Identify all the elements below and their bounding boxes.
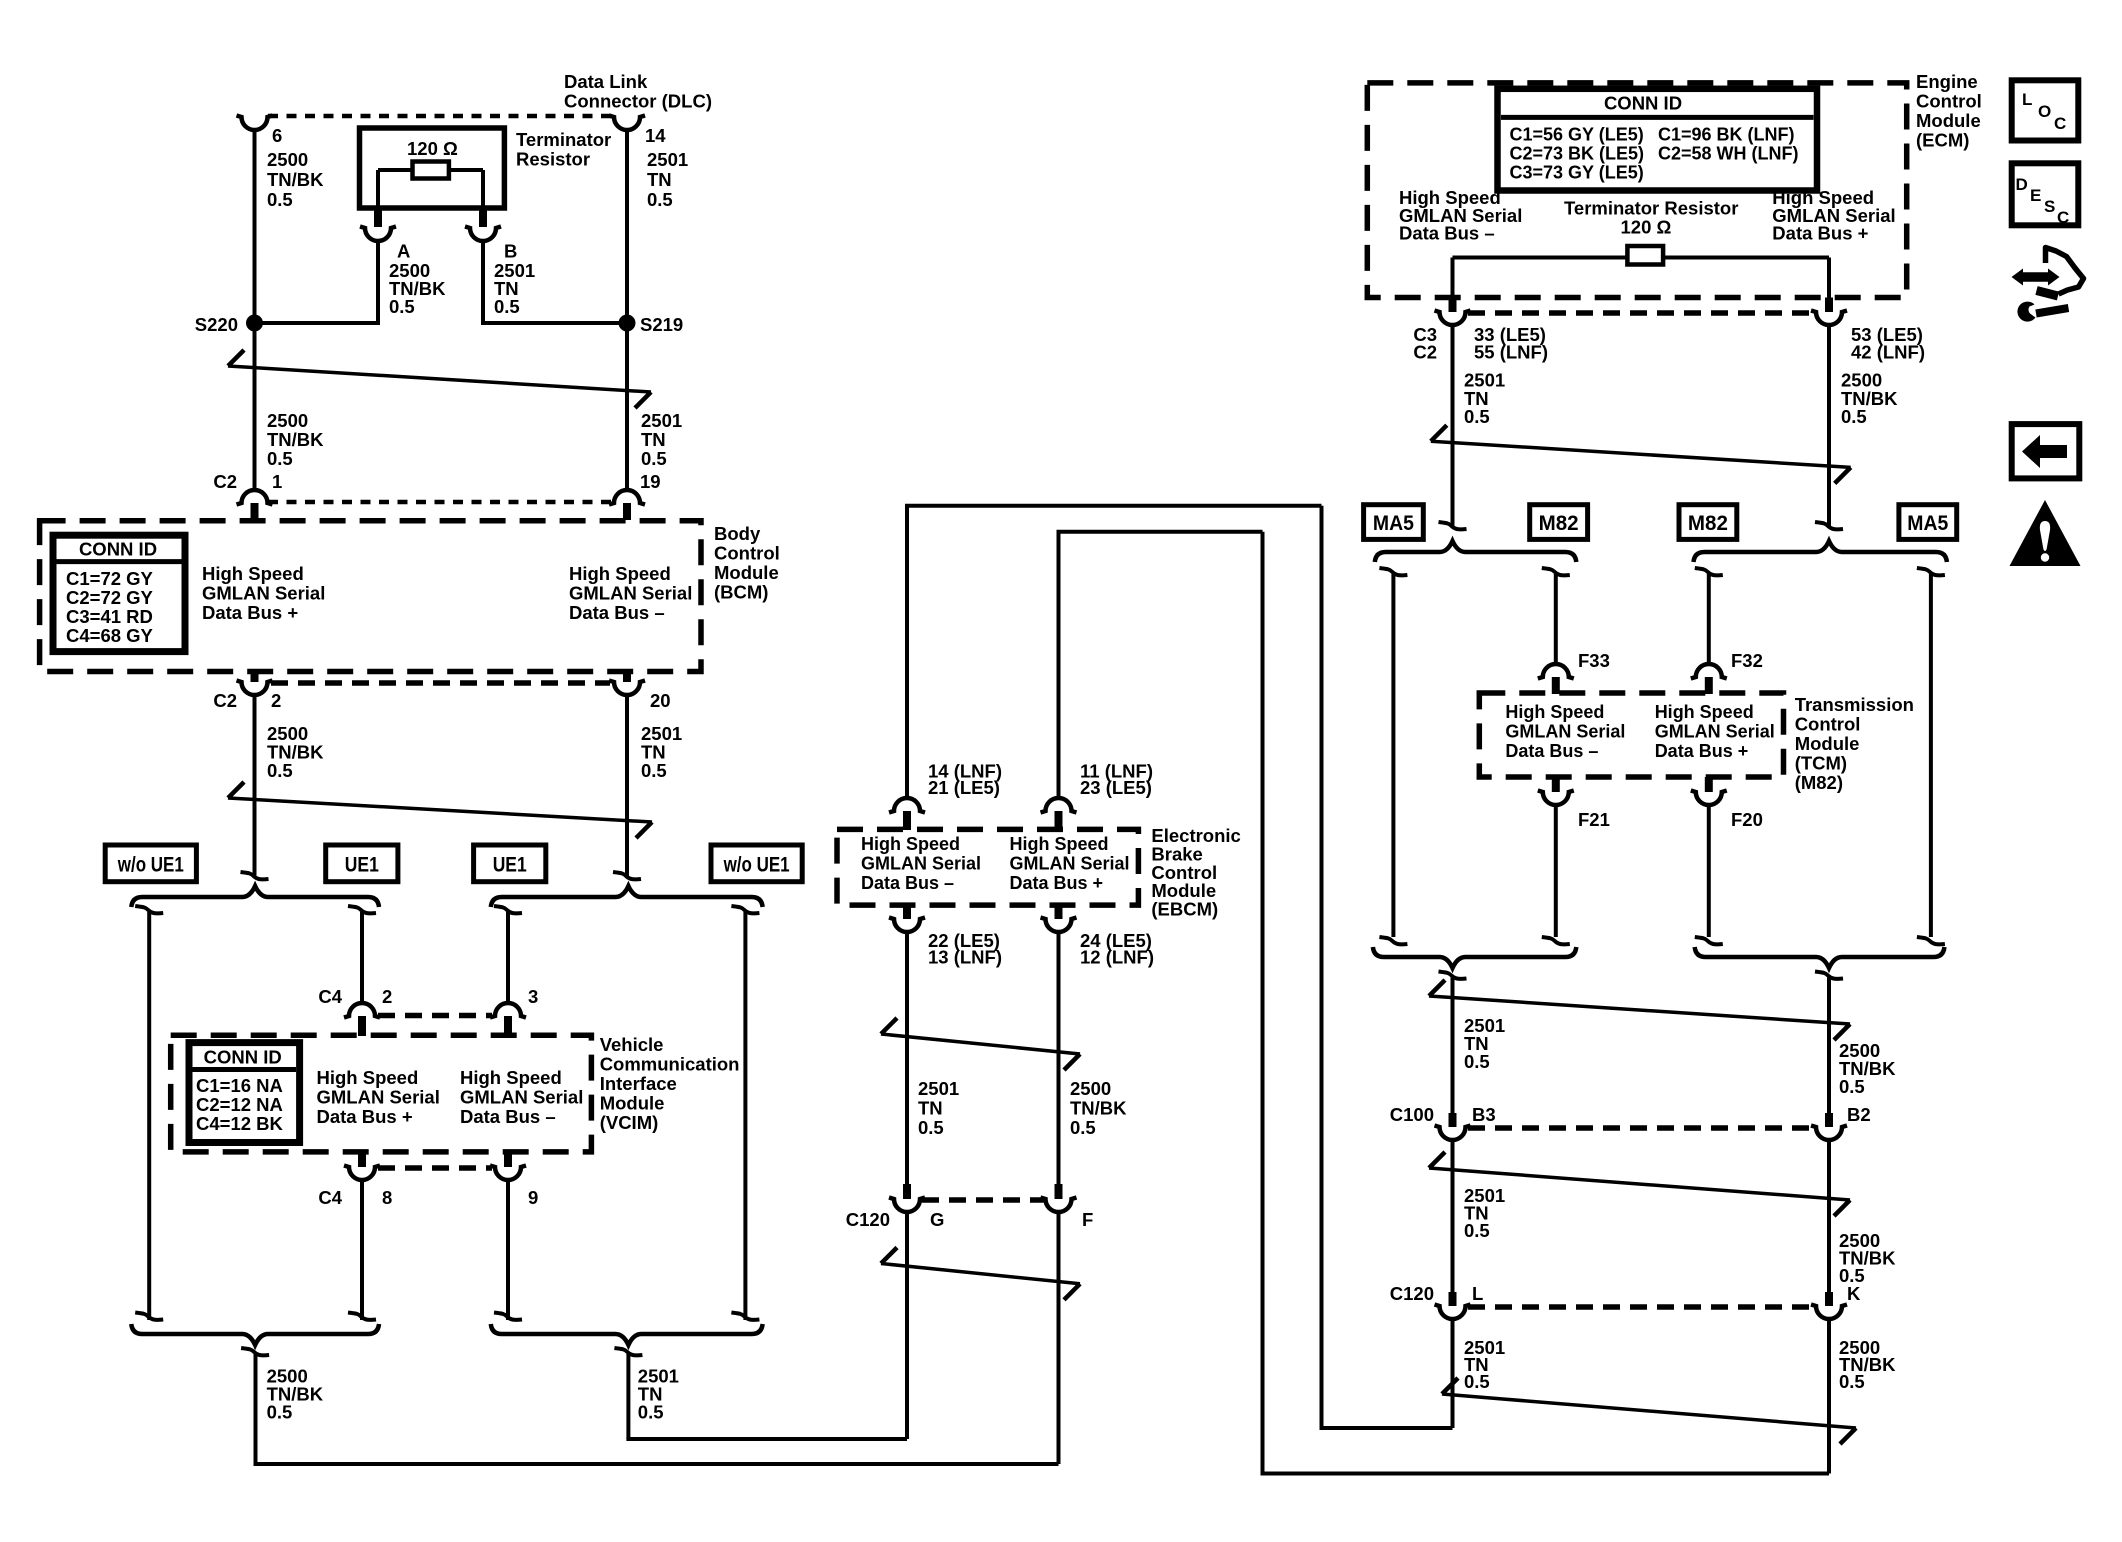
svg-text:0.5: 0.5 (267, 1402, 293, 1423)
svg-text:Transmission: Transmission (1795, 694, 1914, 715)
wire 2500 TN/BK to EBCM F (254, 1354, 258, 1464)
svg-text:F20: F20 (1731, 809, 1763, 830)
terminal stub BCM pin 2 (251, 672, 259, 683)
wire break symbol (1429, 1168, 1850, 1200)
icon LOC box (2012, 80, 2079, 140)
wire break symbol (228, 798, 652, 822)
svg-text:GMLAN Serial: GMLAN Serial (460, 1087, 583, 1108)
connector pin B (cup) (465, 227, 501, 242)
wire 2500 TN/BK C100 to C120 (1827, 1139, 1831, 1292)
wire break symbol (881, 1034, 1080, 1054)
BCM CONN ID table (53, 535, 185, 651)
wire F20 down (1707, 804, 1711, 937)
wire hook (731, 906, 759, 913)
svg-text:(ECM): (ECM) (1916, 130, 1969, 151)
resistor R-DLC element wiring (378, 168, 483, 172)
wire 2501 TN pin14 to S219 (625, 129, 629, 325)
svg-text:GMLAN Serial: GMLAN Serial (1655, 722, 1775, 742)
svg-text:Data Bus –: Data Bus – (569, 602, 665, 623)
svg-text:High Speed: High Speed (1505, 702, 1604, 722)
connector pin F21 (cup) (1538, 791, 1574, 806)
connector pin C4-2 (cap) (344, 1003, 380, 1018)
terminal stub C120-K (1825, 1292, 1833, 1306)
svg-text:High Speed: High Speed (460, 1067, 562, 1088)
wire EBCM bus+ loop top (1057, 532, 1061, 797)
connector pin C120-F (cup) (1041, 1198, 1077, 1213)
svg-text:C: C (2054, 114, 2066, 133)
svg-text:High Speed: High Speed (317, 1067, 419, 1088)
svg-text:CONN ID: CONN ID (1604, 93, 1682, 114)
terminal stub ECM bus+ (1825, 298, 1833, 313)
svg-text:GMLAN Serial: GMLAN Serial (317, 1087, 440, 1108)
svg-text:B2: B2 (1847, 1104, 1871, 1125)
wire 2501 TN pin B to S219 (481, 240, 485, 325)
svg-text:0.5: 0.5 (1839, 1371, 1865, 1392)
terminal stub C120-L (1449, 1292, 1457, 1306)
wire hook (614, 1348, 642, 1355)
svg-text:C2: C2 (213, 690, 237, 711)
connector C3/C2 dashed line (1468, 310, 1814, 316)
wire hook (1542, 937, 1570, 944)
svg-text:Vehicle: Vehicle (600, 1034, 664, 1055)
svg-text:TN: TN (641, 429, 666, 450)
wire 2501 TN to C100-B3 (1451, 978, 1455, 1114)
connector pin ECM bus+ (cup) (1811, 311, 1847, 326)
svg-text:GMLAN Serial: GMLAN Serial (569, 583, 692, 604)
svg-text:(BCM): (BCM) (714, 582, 768, 603)
svg-text:2: 2 (271, 690, 281, 711)
svg-text:2500: 2500 (267, 149, 308, 170)
svg-text:C100: C100 (1390, 1104, 1434, 1125)
wire hook (1815, 522, 1843, 529)
svg-text:120 Ω: 120 Ω (1621, 217, 1672, 238)
svg-text:0.5: 0.5 (1839, 1076, 1865, 1097)
svg-text:Interface: Interface (600, 1073, 677, 1094)
wire hook (731, 1313, 759, 1320)
svg-text:2: 2 (382, 986, 392, 1007)
terminal stub BCM pin 20 (623, 672, 631, 683)
svg-text:E: E (2030, 186, 2041, 205)
terminal stub EBCM bus+ (1055, 811, 1063, 830)
svg-text:C1=72 GY: C1=72 GY (66, 568, 154, 589)
svg-text:C: C (2057, 208, 2069, 227)
connector C4 dashed line lower (378, 1165, 492, 1171)
wire w/o UE1 left branch (147, 912, 151, 1320)
svg-text:D: D (2016, 175, 2028, 194)
connector pin C120-G (cup) (889, 1198, 925, 1213)
wire hook (1815, 972, 1843, 979)
connector pin EBCM bus- (cap) (889, 798, 925, 813)
svg-text:Data Bus +: Data Bus + (1772, 223, 1868, 244)
wire 2501 TN EBCM-22 down (905, 931, 909, 1184)
svg-text:2500: 2500 (1070, 1078, 1111, 1099)
svg-text:21 (LE5): 21 (LE5) (928, 777, 1000, 798)
terminal stub F21 (1552, 777, 1560, 792)
wire hook (348, 906, 376, 913)
terminal stub C100-B3 (1449, 1113, 1457, 1127)
terminal stub C2-19 (623, 503, 631, 520)
wire end hook (241, 872, 269, 879)
svg-text:Data Bus +: Data Bus + (317, 1106, 413, 1127)
svg-text:M82: M82 (1688, 512, 1728, 535)
wire 2501 TN to EBCM G (626, 1354, 630, 1439)
terminal stub pin B (479, 206, 487, 227)
svg-text:2501: 2501 (647, 149, 688, 170)
icon warning triangle (2010, 500, 2081, 566)
svg-text:Data Bus +: Data Bus + (1010, 873, 1104, 893)
terminal stub EBCM pin 24 (1055, 905, 1063, 919)
svg-text:0.5: 0.5 (641, 448, 667, 469)
svg-text:Data Bus +: Data Bus + (1655, 741, 1749, 761)
branch brace left (TCM) (1375, 541, 1577, 562)
svg-text:Data Bus –: Data Bus – (861, 873, 954, 893)
wire 2500 TN/BK pin A to S220 (376, 240, 380, 325)
wire 2501 TN C100 to C120 (1451, 1139, 1455, 1292)
option box UE1 (right) (474, 845, 546, 882)
connector C4 dashed line (378, 1013, 492, 1019)
terminal stub F20 (1705, 777, 1713, 792)
svg-text:C2: C2 (213, 471, 237, 492)
gather brace left (131, 1324, 379, 1345)
svg-text:w/o UE1: w/o UE1 (723, 853, 790, 876)
connector pin C100-B2 (cup) (1811, 1126, 1847, 1141)
svg-text:0.5: 0.5 (1070, 1117, 1096, 1138)
svg-text:CONN ID: CONN ID (204, 1047, 282, 1068)
wire hook (1542, 568, 1570, 575)
terminal stub VCIM pin 8 (358, 1152, 366, 1167)
terminal stub VCIM pin 3 (504, 1016, 512, 1036)
terminal stub C2-1 (251, 503, 259, 520)
svg-text:K: K (1847, 1283, 1861, 1304)
option box UE1 (326, 845, 398, 882)
svg-text:S220: S220 (195, 314, 238, 335)
connector pin C2-1 (cap) (237, 490, 273, 504)
resistor R-ECM 120 ohm element (1627, 246, 1663, 265)
svg-text:Connector (DLC): Connector (DLC) (564, 91, 712, 112)
gather brace right (TCM) (1695, 947, 1945, 968)
terminator resistor box (360, 128, 505, 208)
branch brace right (491, 886, 763, 907)
svg-text:Module: Module (600, 1093, 665, 1114)
wire break symbol (1442, 1394, 1856, 1428)
connector pin C2-19 (cap) (609, 490, 645, 505)
wire 2500 TN/BK to C100-B2 (1827, 978, 1831, 1114)
wire hook (1917, 937, 1945, 944)
connector pin C120-L (cup) (1435, 1305, 1471, 1320)
wire 2500 TN/BK EBCM-24 down (1057, 931, 1061, 1184)
svg-text:TN/BK: TN/BK (267, 169, 324, 190)
wire EBCM bus- loop top (905, 506, 909, 797)
connector pin F32 (cap) (1691, 664, 1727, 679)
svg-text:TN: TN (647, 169, 672, 190)
connector pin DLC-6 (cup) (237, 116, 273, 131)
svg-text:0.5: 0.5 (267, 760, 293, 781)
connector pin C2-2 (cup) (237, 681, 273, 696)
wire 2501 TN ECM down (1451, 324, 1455, 528)
option box MA5 (right) (1899, 505, 1957, 540)
terminal stub F33 (1552, 677, 1560, 694)
svg-text:12 (LNF): 12 (LNF) (1080, 947, 1154, 968)
wire hook (135, 1313, 163, 1320)
svg-text:9: 9 (528, 1187, 538, 1208)
option box MA5 (1364, 505, 1424, 540)
svg-text:0.5: 0.5 (1841, 406, 1867, 427)
module box Transmission Control Module (TCM) (1479, 693, 1783, 777)
wire w/o UE1 right branch (743, 912, 747, 1320)
wire hook (1695, 937, 1723, 944)
connector pin F33 (cap) (1538, 664, 1574, 679)
svg-text:1: 1 (272, 471, 282, 492)
svg-text:Module: Module (1916, 110, 1981, 131)
svg-text:B3: B3 (1472, 1104, 1496, 1125)
svg-text:2501: 2501 (641, 410, 682, 431)
wire UE1 branch to VCIM pin 3 (506, 912, 510, 1004)
svg-text:TN/BK: TN/BK (1070, 1098, 1127, 1119)
wire break symbol (228, 366, 651, 392)
wire hook (135, 906, 163, 913)
svg-text:55 (LNF): 55 (LNF) (1474, 342, 1548, 363)
ECM CONN ID table (1498, 89, 1818, 191)
svg-text:Terminator Resistor: Terminator Resistor (1564, 198, 1738, 219)
connector pin C4-8 (cup) (344, 1166, 380, 1181)
svg-text:GMLAN Serial: GMLAN Serial (1010, 854, 1130, 874)
svg-text:C2=73 BK (LE5): C2=73 BK (LE5) (1510, 144, 1645, 164)
svg-text:6: 6 (272, 125, 282, 146)
connector pin EBCM bus+ (cap) (1041, 798, 1077, 813)
svg-text:C1=16 NA: C1=16 NA (196, 1075, 283, 1096)
svg-text:C4: C4 (318, 1187, 342, 1208)
svg-text:23 (LE5): 23 (LE5) (1080, 777, 1152, 798)
svg-text:0.5: 0.5 (638, 1402, 664, 1423)
svg-text:13 (LNF): 13 (LNF) (928, 947, 1002, 968)
wire F21 down (1554, 804, 1558, 937)
svg-text:Data Bus –: Data Bus – (1505, 741, 1598, 761)
connector pin EBCM-24 (cup) (1041, 918, 1077, 933)
option box w/o UE1 (105, 845, 196, 882)
svg-text:0.5: 0.5 (267, 448, 293, 469)
wire VCIM pin 8 down (360, 1179, 364, 1320)
wire 2500 TN/BK ECM down (1827, 324, 1831, 528)
svg-text:High Speed: High Speed (569, 563, 671, 584)
svg-text:0.5: 0.5 (1464, 1051, 1490, 1072)
wire hook (1439, 972, 1467, 979)
connector pin F20 (cup) (1691, 791, 1727, 806)
svg-text:B: B (504, 241, 517, 262)
gather brace left (TCM) (1373, 947, 1576, 968)
wire hook (241, 1348, 269, 1355)
svg-text:Body: Body (714, 523, 761, 544)
svg-text:0.5: 0.5 (647, 189, 673, 210)
wire MA5 long branch left (1391, 574, 1395, 937)
connector pin C120-K (cup) (1811, 1305, 1847, 1320)
svg-text:0.5: 0.5 (389, 296, 415, 317)
svg-text:TN/BK: TN/BK (267, 429, 324, 450)
svg-text:0.5: 0.5 (641, 760, 667, 781)
svg-text:Data Bus –: Data Bus – (460, 1106, 556, 1127)
svg-text:0.5: 0.5 (267, 189, 293, 210)
connector pin ECM bus- (cup) (1435, 311, 1471, 326)
gather brace right (491, 1324, 763, 1345)
svg-text:0.5: 0.5 (918, 1117, 944, 1138)
option box M82 (right) (1679, 505, 1737, 540)
connector C120 dashed line (922, 1197, 1044, 1203)
option box w/o UE1 (right) (711, 845, 802, 882)
wire hook (1379, 568, 1407, 575)
svg-text:UE1: UE1 (345, 853, 379, 876)
branch brace right (TCM) (1694, 541, 1947, 562)
svg-text:G: G (930, 1209, 944, 1230)
terminal stub EBCM bus- (903, 811, 911, 830)
wire hook (494, 906, 522, 913)
svg-text:L: L (2022, 90, 2032, 109)
svg-text:Engine: Engine (1916, 71, 1978, 92)
svg-text:C2: C2 (1413, 342, 1437, 363)
svg-text:(TCM): (TCM) (1795, 753, 1847, 774)
wire MA5 long branch right (1929, 574, 1933, 937)
terminal stub EBCM pin 22 (903, 905, 911, 919)
svg-text:O: O (2038, 102, 2051, 121)
connector pin C2-20 (cup) (609, 681, 645, 696)
svg-text:F: F (1082, 1209, 1093, 1230)
svg-text:A: A (397, 241, 410, 262)
svg-text:C3=41 RD: C3=41 RD (66, 606, 153, 627)
wire 2500 TN/BK BCM-2 down (253, 694, 257, 878)
svg-text:(VCIM): (VCIM) (600, 1112, 659, 1133)
svg-text:20: 20 (650, 690, 671, 711)
svg-text:F21: F21 (1578, 809, 1610, 830)
svg-text:C120: C120 (846, 1209, 890, 1230)
wire hook (1695, 568, 1723, 575)
wire S219 to pin C2-19 (625, 323, 629, 490)
module box Electronic Brake Control Module (EBCM) (837, 829, 1138, 905)
svg-text:3: 3 (528, 986, 538, 1007)
svg-text:High Speed: High Speed (1655, 702, 1754, 722)
svg-text:GMLAN Serial: GMLAN Serial (861, 854, 981, 874)
svg-text:GMLAN Serial: GMLAN Serial (202, 583, 325, 604)
svg-text:CONN ID: CONN ID (79, 539, 157, 560)
svg-text:F32: F32 (1731, 650, 1763, 671)
wire VCIM pin 9 down (506, 1179, 510, 1320)
svg-text:S219: S219 (640, 314, 683, 335)
icon wrench with arrows (2012, 248, 2084, 322)
connector pin C4-3 (cap) (490, 1003, 526, 1018)
wire hook (1917, 568, 1945, 575)
svg-text:C4=12 BK: C4=12 BK (196, 1113, 284, 1134)
svg-text:(M82): (M82) (1795, 772, 1843, 793)
splice S220 (246, 315, 263, 332)
svg-text:M82: M82 (1539, 512, 1579, 535)
branch brace left (131, 886, 379, 907)
svg-text:0.5: 0.5 (1464, 1220, 1490, 1241)
svg-text:2501: 2501 (918, 1078, 959, 1099)
option box M82 (1530, 505, 1588, 540)
wire hook (348, 1313, 376, 1320)
wire 2501 TN BCM-20 down (625, 694, 629, 878)
svg-text:Control: Control (1916, 91, 1982, 112)
svg-text:2500: 2500 (267, 410, 308, 431)
terminal stub C100-B2 (1825, 1113, 1833, 1127)
module box Vehicle Communication Interface Module (VCIM) (171, 1035, 592, 1152)
svg-text:C120: C120 (1390, 1283, 1434, 1304)
connector pin EBCM-22 (cup) (889, 918, 925, 933)
wire M82 branch to F33 (1554, 574, 1558, 664)
wire 2500 TN/BK pin6 to S220 (253, 129, 257, 325)
svg-text:TN: TN (918, 1098, 943, 1119)
connector pin DLC-14 (cup) (609, 116, 645, 131)
wire break symbol (1429, 996, 1850, 1024)
svg-text:Control: Control (714, 543, 780, 564)
terminal stub C120-G (903, 1184, 911, 1199)
terminal stub VCIM pin 2 (358, 1016, 366, 1036)
terminal stub VCIM pin 9 (504, 1152, 512, 1167)
wire S220 to pin C2-1 (253, 323, 257, 490)
terminal stub F32 (1705, 677, 1713, 694)
wire hook (494, 1313, 522, 1320)
svg-text:Control: Control (1795, 714, 1861, 735)
module box Data Link Connector (DLC) top edge (268, 114, 613, 119)
svg-text:C4=68 GY: C4=68 GY (66, 625, 154, 646)
svg-text:Data Bus –: Data Bus – (1399, 223, 1495, 244)
wire hook (1379, 937, 1407, 944)
svg-text:Data Bus +: Data Bus + (202, 602, 298, 623)
connector pin C100-B3 (cup) (1435, 1126, 1471, 1141)
svg-text:C3=73 GY (LE5): C3=73 GY (LE5) (1510, 163, 1644, 183)
svg-text:8: 8 (382, 1187, 392, 1208)
connector pin C4-9 (cup) (490, 1166, 526, 1181)
terminal stub ECM bus- (1449, 298, 1457, 313)
icon DESC box (2012, 163, 2079, 225)
svg-text:C1=96 BK (LNF): C1=96 BK (LNF) (1658, 125, 1795, 145)
svg-text:F33: F33 (1578, 650, 1610, 671)
module box Body Control Module (BCM) (40, 521, 701, 672)
svg-text:Terminator: Terminator (516, 129, 611, 150)
svg-text:C4: C4 (318, 986, 342, 1007)
wire ECM internal resistor (1453, 256, 1830, 260)
svg-text:High Speed: High Speed (861, 834, 960, 854)
svg-text:Data Link: Data Link (564, 71, 648, 92)
svg-text:19: 19 (640, 471, 661, 492)
terminal stub C120-F (1055, 1184, 1063, 1199)
svg-text:C2=58 WH (LNF): C2=58 WH (LNF) (1658, 144, 1799, 164)
wire hook (1439, 522, 1467, 529)
svg-text:C1=56 GY (LE5): C1=56 GY (LE5) (1510, 125, 1644, 145)
svg-text:MA5: MA5 (1907, 512, 1948, 535)
svg-text:120 Ω: 120 Ω (407, 138, 458, 159)
module box Engine Control Module (ECM) (1367, 83, 1906, 298)
wire break symbol (1431, 441, 1851, 467)
svg-text:GMLAN Serial: GMLAN Serial (1505, 722, 1625, 742)
svg-text:0.5: 0.5 (1464, 406, 1490, 427)
svg-text:High Speed: High Speed (202, 563, 304, 584)
svg-text:S: S (2044, 197, 2055, 216)
wire end hook (613, 872, 641, 879)
svg-text:High Speed: High Speed (1010, 834, 1109, 854)
svg-text:Module: Module (714, 562, 779, 583)
wire break symbol (881, 1264, 1080, 1284)
wire 2501 TN C120-L loop (1451, 1318, 1455, 1428)
resistor R-DLC 120 ohm element (413, 162, 449, 179)
VCIM CONN ID table (189, 1043, 300, 1143)
connector C120 dashed line right (1468, 1304, 1814, 1310)
svg-text:0.5: 0.5 (494, 296, 520, 317)
icon back arrow box (2012, 424, 2080, 478)
connector pin A (cup) (360, 227, 396, 242)
wire 2500 TN/BK C120-K loop (1827, 1318, 1831, 1474)
svg-text:MA5: MA5 (1373, 512, 1414, 535)
wire UE1 branch to VCIM pin 2 (360, 912, 364, 1004)
svg-text:14: 14 (645, 125, 666, 146)
svg-text:0.5: 0.5 (1464, 1371, 1490, 1392)
